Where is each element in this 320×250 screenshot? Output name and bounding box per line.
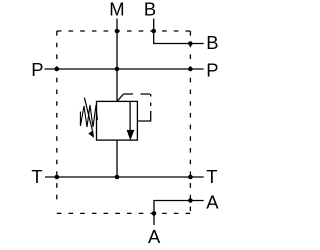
- svg-text:B: B: [144, 0, 156, 20]
- node T right: [188, 175, 193, 180]
- valve V1 spring adjustment arrow shaft: [84, 98, 92, 131]
- wire P horizontal: [45, 68, 204, 70]
- wire B horizontal: [153, 43, 204, 45]
- valve V1 body: [97, 101, 138, 140]
- node P left: [55, 67, 60, 72]
- svg-text:P: P: [31, 59, 43, 80]
- wire M vertical: [116, 19, 118, 102]
- node T left: [55, 175, 60, 180]
- node P center: [115, 67, 120, 72]
- svg-text:M: M: [109, 0, 124, 20]
- dashed enclosure top edge: [57, 30, 191, 32]
- node T center: [115, 175, 120, 180]
- wire T horizontal: [45, 176, 204, 178]
- valve V1 pilot line horizontal dashed: [124, 93, 151, 95]
- node M on enclosure: [115, 29, 120, 34]
- svg-text:P: P: [206, 60, 218, 81]
- node B right: [188, 41, 193, 46]
- node A bottom: [152, 211, 157, 216]
- wire B top vertical: [153, 19, 155, 44]
- valve V1 spring adjustment arrow head: [88, 130, 94, 138]
- valve V1 pilot tap diagonal: [117, 94, 124, 101]
- dashed enclosure left edge: [56, 31, 58, 205]
- wire valve outlet to T: [116, 140, 118, 177]
- valve V1 flow arrow head: [127, 130, 135, 141]
- svg-text:T: T: [206, 166, 217, 187]
- svg-text:B: B: [206, 32, 218, 53]
- dashed enclosure bottom edge: [57, 212, 191, 214]
- dashed enclosure right edge: [189, 31, 191, 213]
- svg-text:T: T: [31, 166, 42, 187]
- valve V1 pilot line vertical dashed into body: [137, 94, 150, 121]
- node B on enclosure top: [151, 29, 156, 34]
- svg-text:A: A: [206, 192, 219, 213]
- node P right: [188, 67, 193, 72]
- valve V1 flow arrow shaft: [129, 101, 131, 130]
- node A right: [188, 198, 193, 203]
- valve V1 spring: [80, 105, 97, 127]
- svg-text:A: A: [148, 226, 161, 247]
- wire A horizontal and vertical: [154, 201, 204, 226]
